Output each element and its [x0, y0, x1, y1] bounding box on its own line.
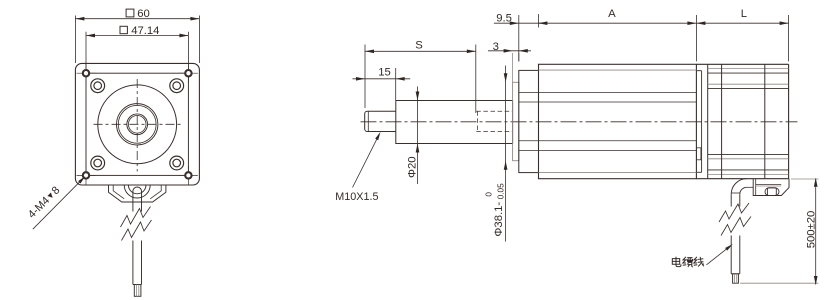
dimension square-60 arrows — [75, 17, 199, 21]
svg-text:Φ38.1-: Φ38.1- — [493, 202, 505, 237]
cable upper segment (side view) — [731, 194, 740, 206]
counterbore circle TR — [170, 79, 184, 93]
svg-text:A: A — [608, 8, 616, 20]
rear housing ring bands — [708, 69, 789, 175]
cable slot cap — [133, 187, 142, 193]
body lamination gray lines — [539, 70, 697, 173]
dim A line — [538, 22, 696, 24]
4-M4 leader arrow — [78, 176, 85, 183]
dimension square-47.14 extension lines — [86, 32, 188, 70]
dim 500 line — [815, 179, 817, 285]
svg-text:Φ20: Φ20 — [407, 156, 419, 178]
dim D20 line — [417, 87, 419, 185]
cable break zigzag lower (side view) — [721, 217, 751, 236]
dim D38.1 line — [505, 66, 507, 242]
cable upper segment (front view) — [133, 192, 142, 212]
4-M4 leader line — [33, 178, 83, 229]
dim 15 extension line right — [395, 68, 397, 100]
dimension square-60 line — [75, 18, 199, 20]
dimension square-60 text — [126, 8, 150, 20]
centerline vertical — [136, 79, 138, 172]
dim S extension lines — [365, 45, 476, 114]
svg-text:500±20: 500±20 — [805, 211, 817, 249]
svg-text:0: 0 — [485, 192, 494, 197]
shaft circle inner — [128, 116, 146, 134]
M10X1.5 leader — [353, 135, 380, 188]
dim D20 arrows — [416, 92, 420, 153]
corner hole TL — [77, 64, 96, 83]
cable break zigzag upper (front view) — [121, 207, 151, 228]
hanzi xian — [694, 257, 704, 267]
cable end connector (front view) — [134, 285, 141, 297]
dim 3 extension lines — [513, 53, 519, 82]
dimension square-60 extension lines — [75, 16, 199, 64]
svg-text:15: 15 — [378, 66, 391, 78]
collar circle inner — [118, 105, 156, 143]
small tab on body rear face — [696, 148, 701, 160]
svg-text:47.14: 47.14 — [131, 25, 159, 37]
svg-text:4-M4▼8: 4-M4▼8 — [26, 184, 62, 220]
cable elbow inner arc — [740, 187, 747, 194]
svg-text:S: S — [415, 39, 423, 51]
svg-text:M10X1.5: M10X1.5 — [335, 191, 378, 203]
lead screw stub M10 — [365, 111, 396, 131]
shaft collar cylinder D20 — [396, 101, 513, 144]
rear connector stadium — [765, 188, 779, 196]
dim S line — [365, 50, 476, 52]
dim 9.5/A/L extension lines — [519, 14, 789, 61]
corner hole TR — [179, 64, 198, 83]
dimension square-47.14 arrows — [86, 34, 188, 38]
cable boot tick — [731, 192, 740, 194]
rear housing left face — [707, 64, 709, 178]
wire-exit dome arc outer — [124, 185, 150, 198]
outer square flange — [75, 63, 199, 185]
dim 9.5 line — [494, 22, 547, 24]
cable label arrow — [725, 244, 733, 251]
rear connector block outline — [753, 179, 789, 196]
cable label leader — [707, 248, 729, 265]
stub chamfer line — [367, 111, 369, 131]
wire-exit bracket below flange — [109, 185, 166, 202]
svg-text:9.5: 9.5 — [496, 13, 512, 25]
dim 9.5/A/L arrows — [510, 21, 789, 25]
rear connector inner arc link — [747, 186, 753, 188]
centerline horizontal — [94, 123, 182, 125]
rear connector plug square — [767, 188, 776, 196]
cable lower segment (side view) — [731, 236, 740, 274]
inner square body outline — [86, 73, 188, 175]
cable break zigzag upper (side view) — [719, 203, 749, 222]
dim 500 arrows — [814, 178, 818, 285]
counterbore circle BL — [91, 156, 105, 170]
hanzi dian — [672, 257, 681, 267]
boss D38.1 — [513, 82, 519, 160]
svg-text:3: 3 — [493, 41, 499, 53]
wire-exit bracket inner contour left — [113, 185, 124, 199]
M10X1.5 leader arrow — [375, 132, 380, 140]
shaft circle outer — [127, 114, 148, 135]
hidden thread lines in collar — [476, 111, 512, 131]
corner hole BL — [77, 166, 96, 185]
counterbore circle TL — [91, 79, 105, 93]
rear housing outline — [696, 64, 788, 178]
dim 15 line — [353, 78, 411, 80]
body internal lines — [519, 93, 697, 151]
cable break zigzag lower (front view) — [122, 220, 152, 241]
svg-text:0.05: 0.05 — [497, 183, 506, 199]
cable label text — [672, 257, 704, 267]
dim 500 extension lines — [740, 179, 818, 283]
dim 15 arrows (outside) — [356, 77, 405, 81]
dim D38.1 arrows — [504, 73, 508, 169]
dim 3 line — [488, 50, 531, 52]
counterbore circle BR — [170, 156, 184, 170]
dim 3 arrows (outside) — [504, 49, 528, 53]
corner hole BR — [179, 166, 198, 185]
wire-exit bracket inner contour right — [150, 185, 161, 199]
cable end connector (side view) — [733, 274, 739, 283]
centerline (side view) — [361, 121, 798, 123]
dimension square-47.14 line — [86, 35, 188, 37]
pilot circle (big) — [98, 85, 177, 164]
hanzi lan — [683, 257, 693, 267]
dim S arrows — [365, 49, 476, 53]
dim L line — [696, 22, 788, 24]
front endbell — [519, 70, 539, 172]
collar circle outer — [117, 104, 158, 145]
cable lower segment (front view) — [133, 241, 142, 285]
rear housing section lines — [722, 64, 765, 178]
rear connector block inner edge — [755, 179, 757, 196]
wire-exit dome arc inner — [128, 185, 146, 194]
dimension square-47.14 text — [120, 25, 159, 37]
svg-text:L: L — [741, 8, 747, 20]
cable elbow outer arc — [731, 179, 747, 195]
rear connector ledge lines — [756, 184, 782, 186]
junction shoulder — [696, 71, 701, 173]
main motor body — [539, 64, 697, 178]
svg-text:60: 60 — [137, 8, 150, 20]
